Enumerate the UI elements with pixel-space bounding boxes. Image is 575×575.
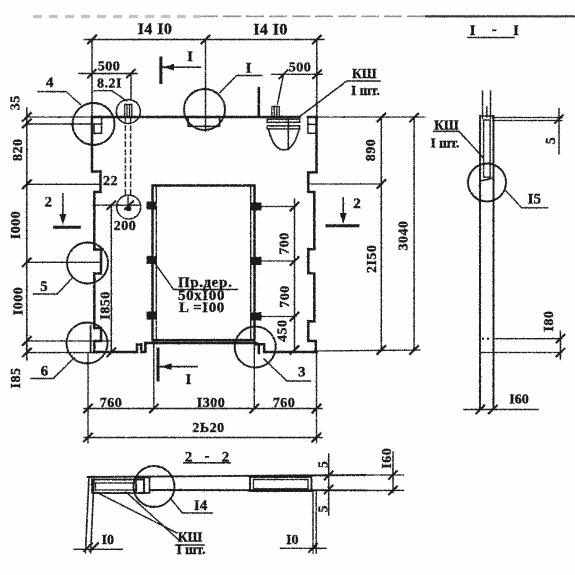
panel right edge with jog <box>308 117 316 249</box>
notch circle5 area <box>94 250 101 329</box>
band top line <box>88 475 365 477</box>
KP leader section <box>434 131 484 158</box>
svg-text:I80: I80 <box>542 311 557 332</box>
500 left dim <box>79 74 137 101</box>
svg-text:2Ь20: 2Ь20 <box>192 421 224 436</box>
rotated dim texts <box>8 95 559 512</box>
band bottom line <box>150 489 366 491</box>
svg-text:I: I <box>470 23 476 39</box>
door opening <box>153 186 255 341</box>
svg-text:I шт.: I шт. <box>351 83 380 98</box>
section mark I top <box>159 58 162 82</box>
leader label 6 <box>31 358 74 379</box>
svg-text:-: - <box>492 22 497 38</box>
section mark 2 left <box>62 194 64 218</box>
svg-text:I000: I000 <box>12 287 27 315</box>
left dim chain <box>26 108 28 360</box>
detail circle 1 <box>184 89 225 130</box>
svg-text:I шт.: I шт. <box>176 542 205 557</box>
corner notch top-right <box>308 117 317 133</box>
right flange line <box>313 490 316 553</box>
svg-text:I0: I0 <box>102 533 114 548</box>
svg-text:22: 22 <box>103 174 118 189</box>
small circle top (8.21 detail) <box>116 100 140 124</box>
leader KP top <box>300 81 380 116</box>
svg-text:I60: I60 <box>509 393 528 408</box>
svg-text:КШ: КШ <box>434 118 459 133</box>
leader label 5 <box>34 278 73 295</box>
detail circle 4 <box>73 103 115 145</box>
svg-text:-: - <box>205 449 210 465</box>
svg-text:I300: I300 <box>197 396 225 411</box>
KP callouts <box>176 66 459 557</box>
svg-text:2I50: 2I50 <box>365 245 380 273</box>
inner right chain 700/700/450 <box>294 199 296 352</box>
svg-text:700: 700 <box>278 285 293 308</box>
leader label 4 <box>38 92 80 105</box>
svg-text:I4 I0: I4 I0 <box>138 21 172 38</box>
svg-text:I0: I0 <box>286 533 298 548</box>
svg-text:I: I <box>185 372 191 388</box>
center ext line through circle 1 <box>205 40 207 132</box>
500 right dim <box>272 74 322 104</box>
notch circle6 area <box>94 328 101 352</box>
wood blocks left <box>147 202 262 321</box>
left plate <box>92 480 144 494</box>
loop wires above <box>483 91 491 118</box>
svg-text:5: 5 <box>544 137 559 145</box>
svg-text:2: 2 <box>353 196 361 212</box>
svg-text:I4: I4 <box>194 498 208 514</box>
detail circle 3 <box>235 327 276 368</box>
bottom dims 760/1300/760 and 2620 <box>84 409 322 438</box>
svg-text:760: 760 <box>273 396 296 411</box>
10 dims <box>74 548 122 550</box>
leader 8.21 <box>94 91 127 101</box>
svg-text:2: 2 <box>222 450 230 466</box>
svg-text:6: 6 <box>41 363 49 379</box>
180 level lines <box>480 339 562 353</box>
leader Pr.der <box>155 263 238 290</box>
svg-text:700: 700 <box>278 232 293 255</box>
svg-text:500: 500 <box>98 60 121 75</box>
panel top edge <box>92 116 317 119</box>
section titles <box>185 22 519 466</box>
cap rectangles <box>480 115 493 117</box>
lifting loop recess at circle 1 <box>188 117 219 126</box>
panel left edge with 22 jog <box>92 117 101 250</box>
label 14 leader <box>171 499 213 514</box>
svg-text:КШ: КШ <box>352 66 377 81</box>
svg-text:3: 3 <box>298 364 306 380</box>
200 dim <box>93 204 141 206</box>
svg-text:I4 I0: I4 I0 <box>253 22 287 39</box>
svg-text:4: 4 <box>46 75 54 91</box>
right plate <box>250 477 312 491</box>
title 2-2 underline <box>184 462 230 464</box>
wall faces <box>480 116 494 408</box>
svg-text:5: 5 <box>317 461 332 469</box>
svg-text:I5: I5 <box>528 192 541 208</box>
svg-text:3040: 3040 <box>396 221 411 251</box>
edge line through circle6 notch <box>90 326 92 352</box>
funnel cap KP <box>267 119 300 122</box>
svg-text:450: 450 <box>276 319 291 342</box>
leader label 15 <box>506 191 547 208</box>
circle 14 <box>134 466 175 507</box>
svg-text:5: 5 <box>317 505 332 513</box>
top edge double line with 5 dim <box>493 118 562 121</box>
leader label 1 <box>220 76 262 93</box>
funnel loop <box>272 107 279 118</box>
dashed hidden channel <box>125 118 130 196</box>
top dimension line 1410+1410 <box>84 39 324 41</box>
right end dims 5/160/5 <box>328 454 330 515</box>
right notches <box>308 249 314 321</box>
svg-text:I85: I85 <box>9 368 24 389</box>
right dims 890/2150/3040 <box>381 118 414 350</box>
svg-text:5: 5 <box>40 279 48 295</box>
detail circle 5 <box>67 243 108 284</box>
svg-text:500: 500 <box>289 61 312 76</box>
corner notch top-left (circle 4 detail) <box>27 118 102 134</box>
svg-text:890: 890 <box>364 139 379 162</box>
svg-text:200: 200 <box>114 219 137 234</box>
bump leg at circle3 <box>258 344 261 353</box>
bottom 160 dim <box>464 409 538 411</box>
svg-text:760: 760 <box>100 396 123 411</box>
detail circle 15 <box>468 164 506 202</box>
title underline <box>468 37 514 39</box>
detail circle 6 <box>67 323 108 364</box>
svg-text:I000: I000 <box>9 211 24 239</box>
svg-text:I: I <box>513 23 519 39</box>
svg-text:8.2I: 8.2I <box>97 76 122 91</box>
svg-text:I шт.: I шт. <box>430 136 459 151</box>
svg-text:I60: I60 <box>380 448 395 469</box>
svg-text:2: 2 <box>45 195 53 211</box>
section mark 2 right <box>342 198 344 218</box>
svg-text:2: 2 <box>185 450 193 466</box>
section mark I bottom <box>157 349 160 380</box>
svg-text:35: 35 <box>8 95 23 110</box>
svg-text:I: I <box>187 49 193 65</box>
Pr der block <box>178 275 232 316</box>
leader label 3 <box>264 359 310 381</box>
svg-text:L =I00: L =I00 <box>179 300 225 316</box>
panel bottom edge profile <box>94 343 317 352</box>
detail labels <box>40 49 541 514</box>
KP leaders bottom <box>100 492 180 541</box>
joint piece <box>136 478 150 494</box>
small circle mid (200 detail) <box>117 195 141 219</box>
scan streak top <box>33 15 575 18</box>
svg-text:I: I <box>246 61 252 77</box>
1850 dim <box>110 205 112 353</box>
small loop top-left with hatching <box>125 105 132 118</box>
stray vertical mark <box>257 88 260 116</box>
svg-text:I850: I850 <box>99 291 114 319</box>
svg-text:820: 820 <box>11 139 26 162</box>
left flange <box>86 477 94 545</box>
